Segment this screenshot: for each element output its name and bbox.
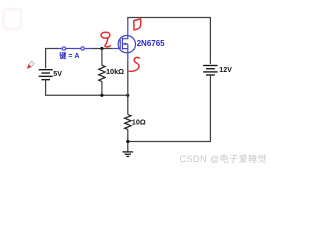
- switch J1 (key = A): [58, 47, 93, 50]
- ground: [122, 152, 133, 157]
- transistor Q1 2N6765 (MOSFET): [113, 20, 136, 61]
- faint watermark blob top-left: [4, 9, 22, 29]
- wire: source line down to R2: [127, 61, 129, 115]
- node junction at gate/R1 top: [100, 47, 103, 50]
- svg-text:12V: 12V: [219, 67, 232, 74]
- node junction R1 bottom: [100, 94, 103, 97]
- wire: R1 bottom lead: [101, 82, 103, 96]
- annotation: red letter D at drain: [134, 19, 141, 30]
- battery V2 12V: [203, 66, 217, 76]
- wire: drain up and across to V2 plus: [128, 18, 211, 64]
- resistor R2 10Ω: [125, 115, 131, 130]
- svg-text:10kΩ: 10kΩ: [106, 67, 124, 76]
- wire: R2 bottom to ground: [127, 130, 129, 152]
- wire: V1 minus down and along bottom of left loop: [46, 80, 128, 96]
- node junction source line: [126, 94, 129, 97]
- wire: top-left corner to switch: [46, 49, 58, 69]
- resistor R1 10kΩ: [99, 65, 105, 81]
- svg-text:键 = A: 键 = A: [58, 51, 79, 60]
- annotation: red letter G at gate: [101, 32, 110, 47]
- svg-text:2N6765: 2N6765: [137, 39, 166, 48]
- battery V1 5V: [39, 70, 53, 80]
- svg-text:5V: 5V: [53, 71, 62, 78]
- wire: V2 minus down and across to ground node: [128, 75, 211, 142]
- annotation: red letter S at source: [129, 57, 139, 71]
- wire: switch to gate node: [92, 48, 113, 50]
- svg-text:CSDN @电子爱睡觉: CSDN @电子爱睡觉: [180, 153, 268, 164]
- annotation: red pencil cursor: [27, 61, 34, 68]
- node junction ground/V2 return: [126, 140, 129, 143]
- svg-text:10Ω: 10Ω: [132, 118, 146, 127]
- wire: R1 top lead: [101, 49, 103, 66]
